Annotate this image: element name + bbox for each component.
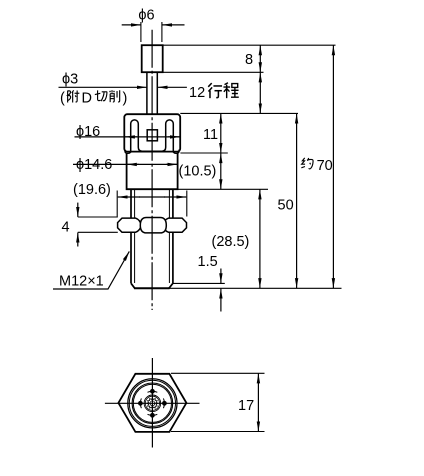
svg-text:ϕ6: ϕ6: [138, 8, 154, 24]
svg-text:ϕ16: ϕ16: [76, 124, 100, 140]
svg-text:1.5: 1.5: [198, 254, 218, 270]
svg-text:(: (: [60, 91, 65, 107]
svg-text:11: 11: [203, 127, 218, 143]
svg-text:M12×1: M12×1: [59, 274, 104, 290]
svg-text:50: 50: [278, 198, 294, 214]
svg-text:(10.5): (10.5): [179, 164, 217, 180]
svg-text:ϕ14.6: ϕ14.6: [76, 157, 112, 173]
svg-text:8: 8: [245, 52, 253, 68]
svg-text:(28.5): (28.5): [212, 234, 250, 250]
svg-text:D: D: [82, 91, 92, 107]
svg-text:): ): [123, 91, 128, 107]
svg-text:(19.6): (19.6): [73, 182, 111, 198]
svg-text:17: 17: [238, 398, 254, 414]
svg-text:4: 4: [62, 220, 70, 236]
svg-text:70: 70: [317, 158, 333, 174]
svg-text:ϕ3: ϕ3: [62, 72, 78, 88]
svg-text:12: 12: [189, 85, 205, 101]
